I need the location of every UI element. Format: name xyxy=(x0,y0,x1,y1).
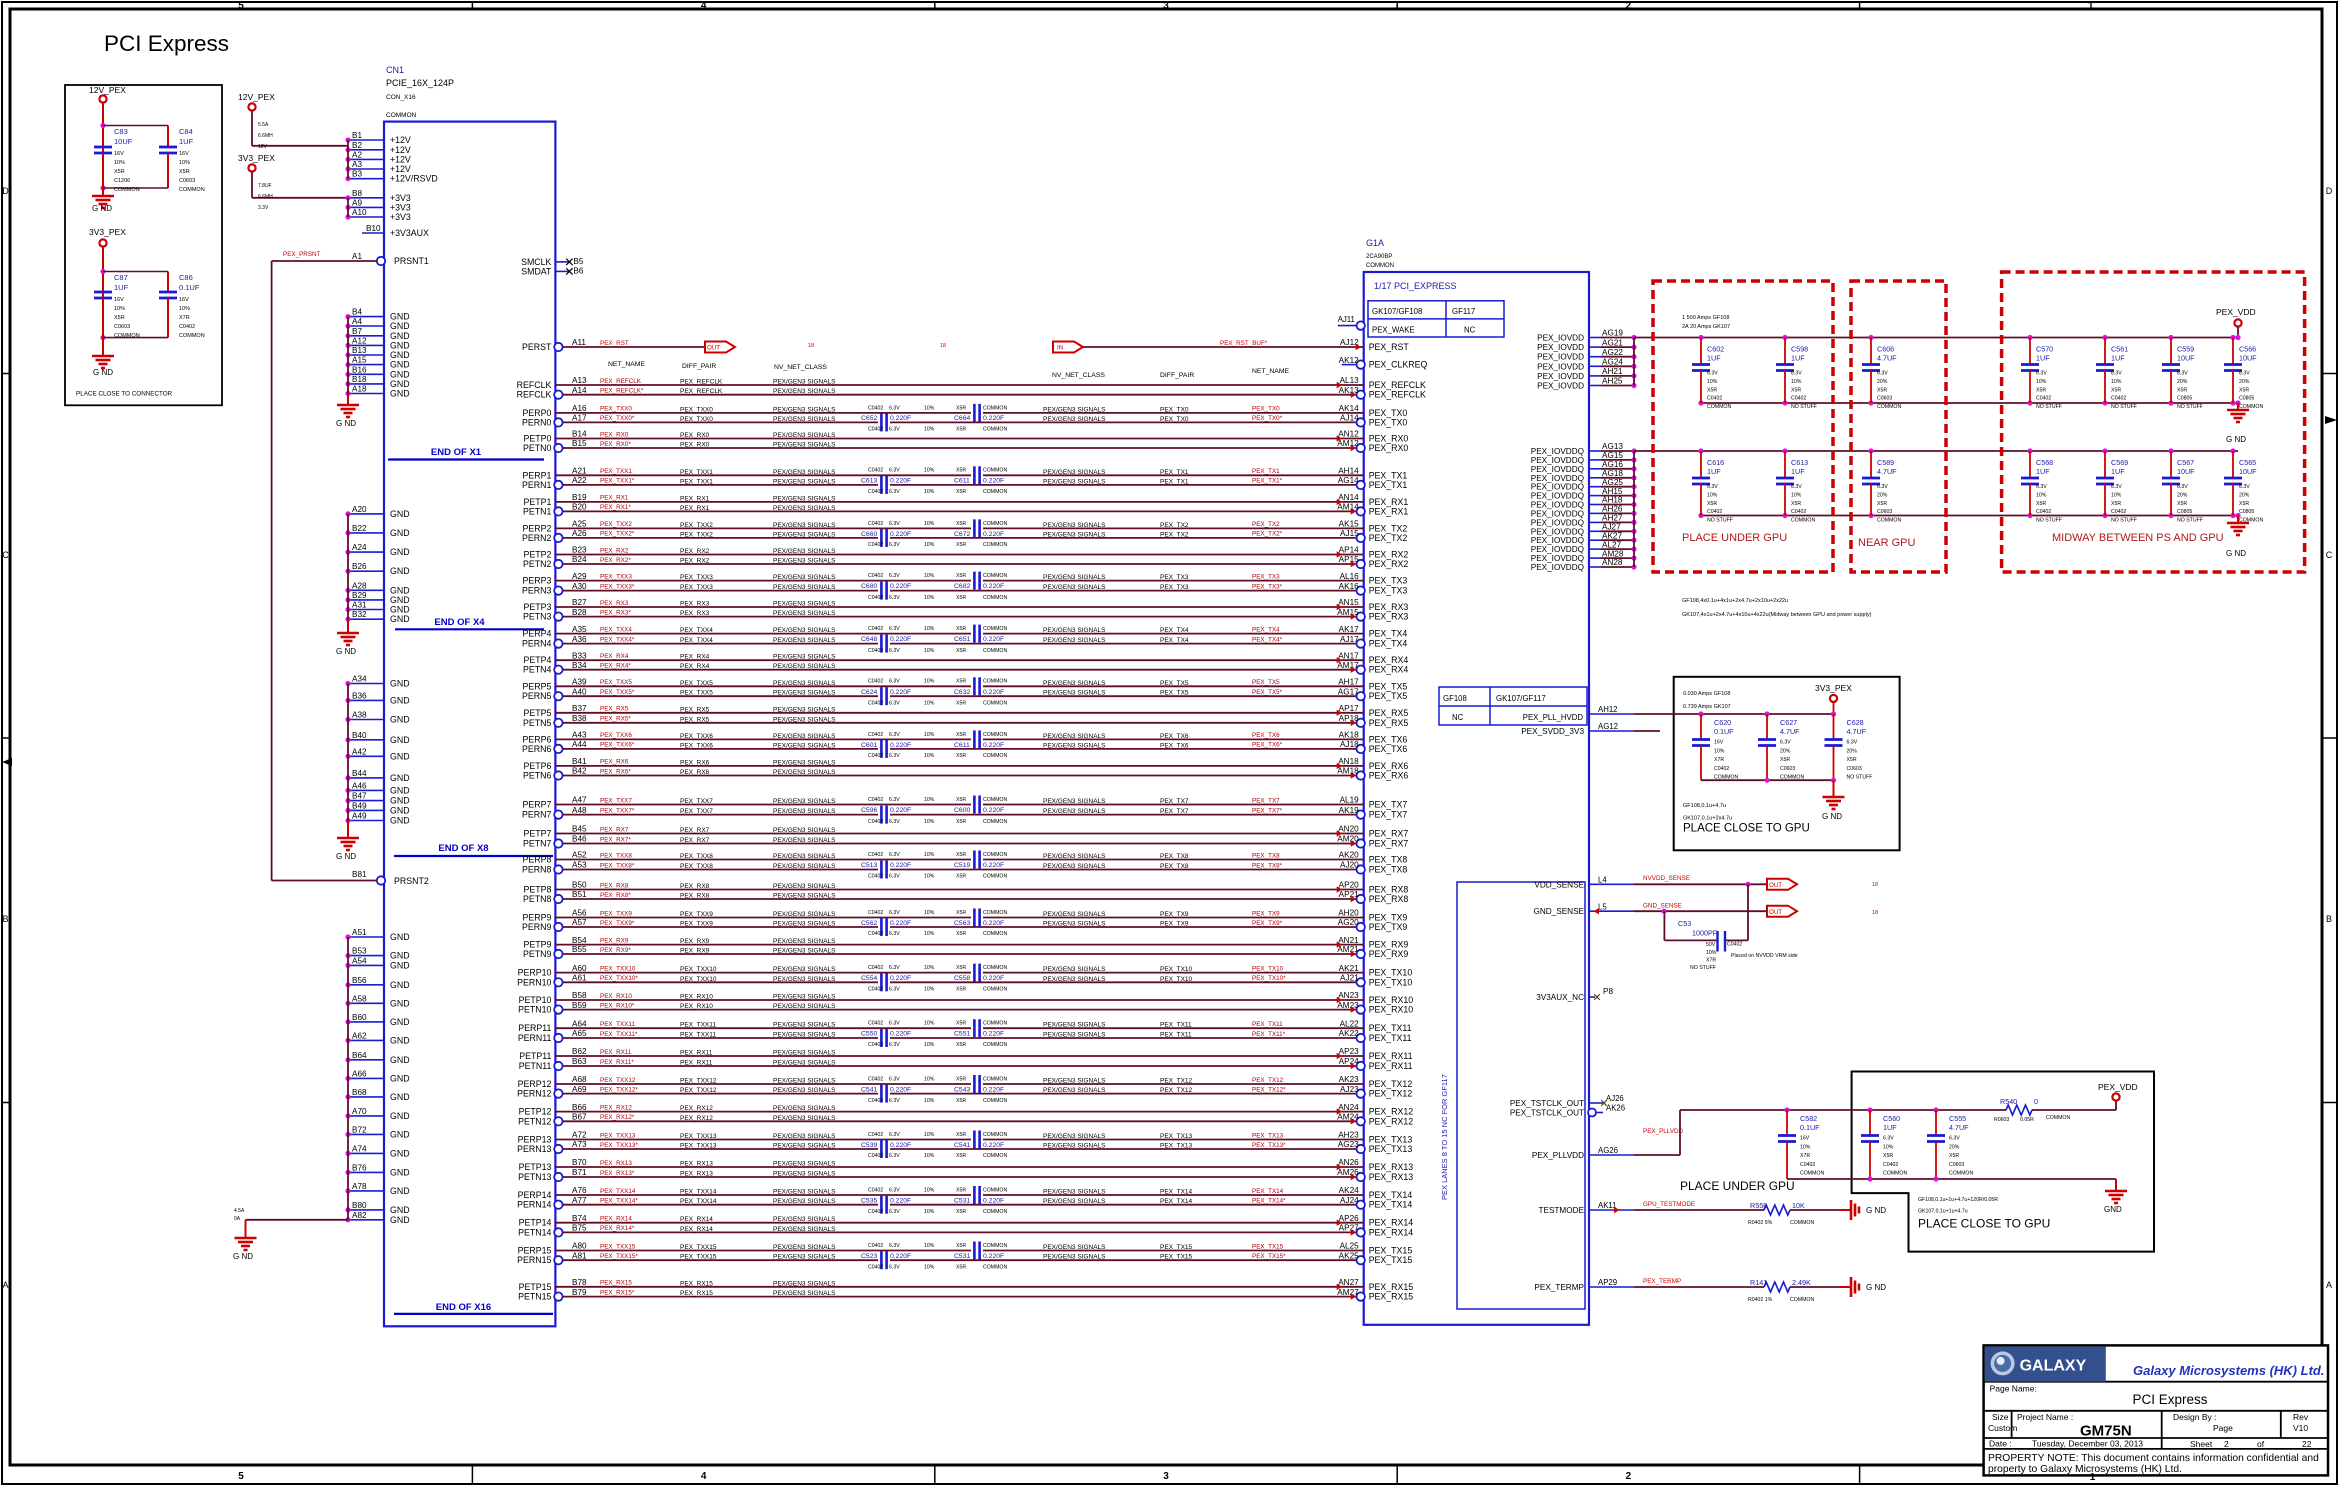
svg-text:R0402 1%: R0402 1% xyxy=(1748,1297,1773,1303)
svg-text:GND: GND xyxy=(390,1035,410,1045)
svg-text:PEX/GEN3 SIGNALS: PEX/GEN3 SIGNALS xyxy=(1043,531,1106,538)
svg-text:PEX/GEN3 SIGNALS: PEX/GEN3 SIGNALS xyxy=(773,1143,836,1150)
svg-text:PETN11: PETN11 xyxy=(519,1061,552,1071)
svg-text:1UF: 1UF xyxy=(179,137,194,146)
svg-text:PEX_TX12*: PEX_TX12* xyxy=(1252,1086,1286,1093)
svg-text:PEX_TX1: PEX_TX1 xyxy=(1252,468,1280,475)
svg-text:X5R: X5R xyxy=(956,405,966,411)
svg-text:PEX_IOVDDQ: PEX_IOVDDQ xyxy=(1531,447,1584,456)
svg-text:A16: A16 xyxy=(572,404,587,413)
svg-text:A68: A68 xyxy=(572,1075,587,1084)
svg-text:PEX_TXX6: PEX_TXX6 xyxy=(680,733,713,740)
svg-text:END OF X8: END OF X8 xyxy=(438,843,488,854)
svg-text:+3V3AUX: +3V3AUX xyxy=(390,228,429,238)
svg-text:3: 3 xyxy=(1163,1471,1169,1482)
svg-text:C0402: C0402 xyxy=(868,542,883,548)
svg-text:C0402: C0402 xyxy=(1707,396,1722,402)
svg-text:PEX/GEN3 SIGNALS: PEX/GEN3 SIGNALS xyxy=(1043,690,1106,697)
svg-text:0.220F: 0.220F xyxy=(983,1031,1004,1038)
svg-text:PEX/GEN3 SIGNALS: PEX/GEN3 SIGNALS xyxy=(773,522,836,529)
svg-text:0.220F: 0.220F xyxy=(890,742,911,749)
svg-text:PERP7: PERP7 xyxy=(523,800,552,810)
svg-text:B54: B54 xyxy=(572,936,587,945)
svg-text:PEX_RX12: PEX_RX12 xyxy=(1369,1107,1414,1117)
svg-text:PEX_TXX2: PEX_TXX2 xyxy=(680,531,713,538)
svg-text:PEX_TXX0: PEX_TXX0 xyxy=(680,406,713,413)
svg-text:PEX_TX9: PEX_TX9 xyxy=(1369,922,1408,932)
svg-text:PEX_RX2*: PEX_RX2* xyxy=(600,557,631,564)
svg-text:A28: A28 xyxy=(352,581,367,590)
svg-text:C0402: C0402 xyxy=(868,521,883,527)
svg-text:C0402: C0402 xyxy=(2036,396,2051,402)
svg-text:PEX_TXX3: PEX_TXX3 xyxy=(680,574,713,581)
svg-text:A26: A26 xyxy=(572,529,587,538)
svg-text:PEX/GEN3 SIGNALS: PEX/GEN3 SIGNALS xyxy=(773,837,836,844)
svg-text:COMMON: COMMON xyxy=(386,112,417,119)
svg-text:COMMON: COMMON xyxy=(983,931,1007,937)
svg-text:PEX_TX0: PEX_TX0 xyxy=(1252,406,1280,413)
svg-text:PEX_RX9: PEX_RX9 xyxy=(680,948,710,955)
svg-text:10%: 10% xyxy=(924,468,935,474)
svg-text:COMMON: COMMON xyxy=(983,542,1007,548)
svg-text:PEX/GEN3 SIGNALS: PEX/GEN3 SIGNALS xyxy=(1043,1032,1106,1039)
svg-text:C0603: C0603 xyxy=(179,178,195,184)
svg-text:PEX_TXX7*: PEX_TXX7* xyxy=(600,807,635,814)
svg-text:DIFF_PAIR: DIFF_PAIR xyxy=(682,363,716,370)
svg-text:0.220F: 0.220F xyxy=(890,807,911,814)
svg-text:PEX_TX15*: PEX_TX15* xyxy=(1252,1253,1286,1260)
svg-text:20%: 20% xyxy=(1847,748,1858,754)
svg-text:C567: C567 xyxy=(2177,458,2194,467)
svg-text:GK107,0.1u+2x4.7u: GK107,0.1u+2x4.7u xyxy=(1683,816,1732,822)
svg-text:PEX_TX7: PEX_TX7 xyxy=(1252,797,1280,804)
svg-text:PEX_TX10: PEX_TX10 xyxy=(1252,965,1284,972)
svg-text:C0402: C0402 xyxy=(868,1098,883,1104)
svg-text:COMMON: COMMON xyxy=(983,819,1007,825)
svg-text:PEX_RX3: PEX_RX3 xyxy=(600,600,629,607)
svg-text:B71: B71 xyxy=(572,1168,587,1177)
svg-text:PEX_TX15: PEX_TX15 xyxy=(1160,1244,1193,1251)
svg-text:C0402: C0402 xyxy=(868,427,883,433)
svg-text:PEX_IOVDD: PEX_IOVDD xyxy=(1537,334,1584,343)
svg-text:AN17: AN17 xyxy=(1338,651,1359,660)
svg-text:PEX/GEN3 SIGNALS: PEX/GEN3 SIGNALS xyxy=(1043,469,1106,476)
svg-text:0.220F: 0.220F xyxy=(983,478,1004,485)
svg-text:PEX_RX0*: PEX_RX0* xyxy=(600,441,631,448)
svg-text:10%: 10% xyxy=(924,965,935,971)
svg-text:PEX/GEN3 SIGNALS: PEX/GEN3 SIGNALS xyxy=(773,574,836,581)
svg-text:PEX_IOVDDQ: PEX_IOVDDQ xyxy=(1531,563,1584,572)
svg-text:0.220F: 0.220F xyxy=(983,1086,1004,1093)
svg-text:AM18: AM18 xyxy=(1337,767,1359,776)
svg-text:1UF: 1UF xyxy=(1707,467,1721,476)
svg-text:PEX/GEN3 SIGNALS: PEX/GEN3 SIGNALS xyxy=(773,883,836,890)
svg-text:PEX_TX4: PEX_TX4 xyxy=(1160,627,1189,634)
svg-text:PEX_IOVDDQ: PEX_IOVDDQ xyxy=(1531,536,1584,545)
svg-text:X5R: X5R xyxy=(1791,387,1801,393)
svg-text:B37: B37 xyxy=(572,704,587,713)
svg-text:C0402: C0402 xyxy=(2036,509,2051,515)
svg-text:16V: 16V xyxy=(179,151,189,157)
svg-text:GM75N: GM75N xyxy=(2080,1423,2132,1440)
svg-text:B51: B51 xyxy=(572,890,587,899)
svg-text:4.5A: 4.5A xyxy=(234,1208,245,1214)
svg-text:PEX_RX8: PEX_RX8 xyxy=(680,883,710,890)
svg-text:A35: A35 xyxy=(572,625,587,634)
svg-text:PEX_RX6: PEX_RX6 xyxy=(1369,771,1409,781)
svg-text:PEX_RX12: PEX_RX12 xyxy=(680,1115,713,1122)
svg-text:PEX_TX13: PEX_TX13 xyxy=(1369,1135,1413,1145)
svg-text:6.3V: 6.3V xyxy=(889,489,900,495)
svg-text:10%: 10% xyxy=(114,160,125,166)
svg-text:PETN13: PETN13 xyxy=(518,1172,551,1182)
svg-text:C648: C648 xyxy=(861,636,877,643)
svg-text:C0805: C0805 xyxy=(2177,509,2192,515)
svg-text:PEX_RX12: PEX_RX12 xyxy=(680,1105,713,1112)
svg-text:PEX/GEN3 SIGNALS: PEX/GEN3 SIGNALS xyxy=(1043,627,1106,634)
svg-text:C558: C558 xyxy=(954,975,970,982)
svg-text:C680: C680 xyxy=(861,583,877,590)
svg-text:PEX_RX1: PEX_RX1 xyxy=(1369,506,1409,516)
svg-text:AP23: AP23 xyxy=(1339,1047,1359,1056)
svg-text:PEX_RX10: PEX_RX10 xyxy=(1369,1005,1414,1015)
svg-text:PERN1: PERN1 xyxy=(522,480,551,490)
svg-text:PEX/GEN3 SIGNALS: PEX/GEN3 SIGNALS xyxy=(773,1226,836,1233)
svg-text:GND: GND xyxy=(390,369,410,379)
svg-text:COMMON: COMMON xyxy=(1877,404,1901,410)
svg-text:B4: B4 xyxy=(352,308,362,317)
svg-text:PEX/GEN3 SIGNALS: PEX/GEN3 SIGNALS xyxy=(773,1244,836,1251)
svg-text:COMMON: COMMON xyxy=(983,468,1007,474)
svg-text:PETP15: PETP15 xyxy=(519,1282,552,1292)
svg-text:C0402: C0402 xyxy=(868,648,883,654)
svg-text:C0402: C0402 xyxy=(868,874,883,880)
svg-text:C539: C539 xyxy=(861,1142,877,1149)
svg-text:G ND: G ND xyxy=(2226,435,2246,444)
svg-text:PETP5: PETP5 xyxy=(524,708,552,718)
svg-text:PEX_RX11*: PEX_RX11* xyxy=(600,1059,634,1066)
svg-text:B16: B16 xyxy=(352,365,367,374)
svg-text:X5R: X5R xyxy=(956,1042,966,1048)
svg-text:PEX/GEN3 SIGNALS: PEX/GEN3 SIGNALS xyxy=(1043,522,1106,529)
svg-text:1UF: 1UF xyxy=(114,283,129,292)
svg-text:20%: 20% xyxy=(1780,748,1791,754)
svg-text:PEX_TX2: PEX_TX2 xyxy=(1369,523,1408,533)
svg-text:10%: 10% xyxy=(924,679,935,685)
svg-text:C0402: C0402 xyxy=(179,324,195,330)
svg-text:PEX_TX13: PEX_TX13 xyxy=(1252,1132,1284,1139)
svg-text:PEX/GEN3 SIGNALS: PEX/GEN3 SIGNALS xyxy=(773,1198,836,1205)
svg-text:AG21: AG21 xyxy=(1602,338,1623,347)
svg-text:PETP3: PETP3 xyxy=(524,602,552,612)
svg-text:AM24: AM24 xyxy=(1337,1113,1359,1122)
svg-text:B41: B41 xyxy=(572,757,587,766)
svg-text:GALAXY: GALAXY xyxy=(2020,1357,2087,1374)
svg-text:C682: C682 xyxy=(954,583,970,590)
svg-text:AN18: AN18 xyxy=(1338,757,1359,766)
svg-text:GND: GND xyxy=(390,1092,410,1102)
svg-text:B26: B26 xyxy=(352,562,367,571)
svg-text:PEX_RX15: PEX_RX15 xyxy=(1369,1292,1414,1302)
svg-text:PEX/GEN3 SIGNALS: PEX/GEN3 SIGNALS xyxy=(773,654,836,661)
svg-text:Galaxy Microsystems (HK) Ltd.: Galaxy Microsystems (HK) Ltd. xyxy=(2133,1363,2324,1378)
svg-text:C559: C559 xyxy=(2177,345,2194,354)
svg-text:PEX_TXX7: PEX_TXX7 xyxy=(680,798,713,805)
svg-text:1UF: 1UF xyxy=(2111,467,2125,476)
svg-text:6.3V: 6.3V xyxy=(2177,371,2188,377)
svg-text:PEX_RX0: PEX_RX0 xyxy=(680,442,710,449)
svg-text:B2: B2 xyxy=(352,141,362,150)
svg-text:PEX_TX14*: PEX_TX14* xyxy=(1252,1198,1286,1205)
svg-text:PERP5: PERP5 xyxy=(523,681,552,691)
svg-text:X5R: X5R xyxy=(2036,387,2046,393)
svg-text:PERP10: PERP10 xyxy=(518,968,552,978)
svg-text:PEX/GEN3 SIGNALS: PEX/GEN3 SIGNALS xyxy=(773,558,836,565)
svg-text:GND: GND xyxy=(390,1167,410,1177)
svg-text:16V: 16V xyxy=(1800,1136,1810,1142)
svg-text:PEX/GEN3 SIGNALS: PEX/GEN3 SIGNALS xyxy=(1043,863,1106,870)
svg-text:AK20: AK20 xyxy=(1339,851,1359,860)
svg-text:PEX_IOVDDQ: PEX_IOVDDQ xyxy=(1531,474,1584,483)
svg-text:PEX_TXX11*: PEX_TXX11* xyxy=(600,1031,638,1038)
svg-text:GND: GND xyxy=(390,331,410,341)
svg-text:PEX/GEN3 SIGNALS: PEX/GEN3 SIGNALS xyxy=(773,1003,836,1010)
svg-text:C0402: C0402 xyxy=(868,405,883,411)
svg-text:NV_NET_CLASS: NV_NET_CLASS xyxy=(774,364,827,371)
svg-text:A73: A73 xyxy=(572,1140,587,1149)
svg-text:PEX_IOVDD: PEX_IOVDD xyxy=(1537,362,1584,371)
svg-text:PEX_TXX14: PEX_TXX14 xyxy=(680,1198,717,1205)
svg-text:PERN2: PERN2 xyxy=(522,533,551,543)
svg-text:of: of xyxy=(2257,1439,2265,1449)
svg-text:AN23: AN23 xyxy=(1338,991,1359,1000)
svg-text:COMMON: COMMON xyxy=(983,1264,1007,1270)
svg-text:PEX_TSTCLK_OUT: PEX_TSTCLK_OUT xyxy=(1510,1109,1584,1118)
svg-text:A54: A54 xyxy=(352,956,367,965)
svg-text:COMMON: COMMON xyxy=(1707,404,1731,410)
svg-text:PEX_TXX3: PEX_TXX3 xyxy=(680,584,713,591)
svg-text:PEX_RX0: PEX_RX0 xyxy=(1369,443,1409,453)
svg-text:Size: Size xyxy=(1992,1412,2009,1422)
svg-text:GND: GND xyxy=(390,735,410,745)
svg-text:G ND: G ND xyxy=(336,647,356,656)
svg-text:PEX_REFCLK: PEX_REFCLK xyxy=(600,378,642,385)
svg-text:PEX/GEN3 SIGNALS: PEX/GEN3 SIGNALS xyxy=(773,827,836,834)
svg-text:L4: L4 xyxy=(1598,876,1607,885)
svg-text:C0402: C0402 xyxy=(868,1042,883,1048)
svg-text:C664: C664 xyxy=(954,415,970,422)
svg-text:A29: A29 xyxy=(572,572,587,581)
svg-text:B44: B44 xyxy=(352,769,367,778)
svg-text:R0402 5%: R0402 5% xyxy=(1748,1220,1773,1226)
svg-text:0.220F: 0.220F xyxy=(983,862,1004,869)
svg-text:PEX_RX10: PEX_RX10 xyxy=(680,994,713,1001)
svg-text:C531: C531 xyxy=(954,1253,970,1260)
svg-text:GND: GND xyxy=(390,566,410,576)
svg-text:PCIE_16X_124P: PCIE_16X_124P xyxy=(386,78,454,88)
svg-text:4.7UF: 4.7UF xyxy=(1949,1123,1969,1132)
svg-text:PEX_TXX7: PEX_TXX7 xyxy=(600,797,632,804)
svg-text:PERN4: PERN4 xyxy=(522,639,551,649)
svg-text:PEX/GEN3 SIGNALS: PEX/GEN3 SIGNALS xyxy=(1043,478,1106,485)
svg-text:AM12: AM12 xyxy=(1337,439,1359,448)
svg-text:PEX/GEN3 SIGNALS: PEX/GEN3 SIGNALS xyxy=(773,1280,836,1287)
svg-text:3V3AUX_NC: 3V3AUX_NC xyxy=(1536,993,1584,1002)
svg-text:5: 5 xyxy=(238,1,244,12)
svg-text:AP17: AP17 xyxy=(1339,704,1359,713)
svg-text:PEX/GEN3 SIGNALS: PEX/GEN3 SIGNALS xyxy=(1043,1189,1106,1196)
svg-text:A38: A38 xyxy=(352,711,367,720)
svg-text:GND: GND xyxy=(390,585,410,595)
svg-text:PETP2: PETP2 xyxy=(524,550,552,560)
svg-text:B75: B75 xyxy=(572,1224,587,1233)
svg-text:PEX_RX8*: PEX_RX8* xyxy=(600,892,631,899)
svg-text:PEX/GEN3 SIGNALS: PEX/GEN3 SIGNALS xyxy=(1043,911,1106,918)
svg-text:6.3V: 6.3V xyxy=(2177,484,2188,490)
svg-text:C0402: C0402 xyxy=(868,595,883,601)
svg-text:PEX_VDD: PEX_VDD xyxy=(2216,307,2256,317)
svg-text:AN12: AN12 xyxy=(1338,430,1359,439)
svg-text:PEX_TXX10*: PEX_TXX10* xyxy=(600,975,638,982)
svg-text:GND: GND xyxy=(390,773,410,783)
svg-text:PEX/GEN3 SIGNALS: PEX/GEN3 SIGNALS xyxy=(773,1133,836,1140)
svg-text:PEX_RX14: PEX_RX14 xyxy=(1369,1227,1414,1237)
svg-text:PEX/GEN3 SIGNALS: PEX/GEN3 SIGNALS xyxy=(773,416,836,423)
svg-text:6.3V: 6.3V xyxy=(1877,371,1888,377)
svg-text:C613: C613 xyxy=(861,478,877,485)
svg-text:PEX_PLL_HVDD: PEX_PLL_HVDD xyxy=(1523,713,1584,722)
svg-text:C562: C562 xyxy=(861,920,877,927)
svg-text:PEX_TXX8*: PEX_TXX8* xyxy=(600,862,635,869)
svg-text:PEX_TX1*: PEX_TX1* xyxy=(1252,478,1283,485)
svg-text:X5R: X5R xyxy=(1780,757,1790,763)
svg-text:COMMON: COMMON xyxy=(983,732,1007,738)
svg-text:PEX_RX5: PEX_RX5 xyxy=(680,706,710,713)
svg-text:PEX_RX5: PEX_RX5 xyxy=(1369,708,1409,718)
svg-text:C0402: C0402 xyxy=(868,679,883,685)
svg-text:B10: B10 xyxy=(366,224,381,233)
svg-text:PEX_RX8: PEX_RX8 xyxy=(1369,894,1409,904)
svg-text:PEX_IOVDDQ: PEX_IOVDDQ xyxy=(1531,465,1584,474)
svg-text:18: 18 xyxy=(808,343,814,349)
svg-text:X5R: X5R xyxy=(956,679,966,685)
svg-text:PLACE CLOSE TO GPU: PLACE CLOSE TO GPU xyxy=(1683,823,1810,835)
svg-text:10%: 10% xyxy=(924,521,935,527)
svg-text:PEX_TXX10: PEX_TXX10 xyxy=(680,966,717,973)
svg-text:PEX_RX8: PEX_RX8 xyxy=(1369,885,1409,895)
svg-text:C620: C620 xyxy=(1714,718,1731,727)
svg-text:6.3V: 6.3V xyxy=(1780,740,1791,746)
svg-text:PCI Express: PCI Express xyxy=(2132,1392,2207,1407)
svg-text:PEX_CLKREQ: PEX_CLKREQ xyxy=(1369,360,1428,370)
svg-text:AJ17: AJ17 xyxy=(1340,635,1359,644)
svg-text:GND: GND xyxy=(390,528,410,538)
svg-text:PEX_RX2: PEX_RX2 xyxy=(680,558,710,565)
svg-text:GND: GND xyxy=(390,1215,410,1225)
svg-text:PEX/GEN3 SIGNALS: PEX/GEN3 SIGNALS xyxy=(1043,921,1106,928)
svg-text:6.3V: 6.3V xyxy=(889,521,900,527)
svg-text:PEX_RX14: PEX_RX14 xyxy=(680,1226,713,1233)
svg-text:COMMON: COMMON xyxy=(983,987,1007,993)
svg-text:OUT: OUT xyxy=(707,345,720,352)
svg-text:C84: C84 xyxy=(179,127,193,136)
svg-text:PEX_REFCLK*: PEX_REFCLK* xyxy=(600,388,644,395)
svg-text:GK107,4x1u+2x4.7u+4x10u+4x22u(: GK107,4x1u+2x4.7u+4x10u+4x22u(Midway bet… xyxy=(1682,612,1872,618)
svg-text:0.220F: 0.220F xyxy=(890,478,911,485)
svg-text:PEX_TXX9: PEX_TXX9 xyxy=(600,910,632,917)
svg-text:C563: C563 xyxy=(954,920,970,927)
svg-text:PEX/GEN3 SIGNALS: PEX/GEN3 SIGNALS xyxy=(773,994,836,1001)
svg-text:GND: GND xyxy=(390,785,410,795)
svg-text:18: 18 xyxy=(1872,910,1878,916)
svg-text:22: 22 xyxy=(2302,1439,2312,1449)
svg-text:PEX_RX10*: PEX_RX10* xyxy=(600,1002,635,1009)
svg-text:0.1UF: 0.1UF xyxy=(1800,1123,1820,1132)
svg-text:A78: A78 xyxy=(352,1182,367,1191)
svg-text:PEX_RX4: PEX_RX4 xyxy=(1369,665,1409,675)
svg-text:+12V: +12V xyxy=(390,164,411,174)
svg-text:PEX/GEN3 SIGNALS: PEX/GEN3 SIGNALS xyxy=(1043,1254,1106,1261)
svg-text:PEX_TXX5: PEX_TXX5 xyxy=(680,690,713,697)
svg-text:10UF: 10UF xyxy=(2177,354,2195,363)
svg-text:PEX_RX15: PEX_RX15 xyxy=(1369,1282,1414,1292)
svg-text:C531: C531 xyxy=(954,1197,970,1204)
svg-text:6.3V: 6.3V xyxy=(889,626,900,632)
svg-text:10%: 10% xyxy=(1707,379,1718,385)
svg-text:A82: A82 xyxy=(352,1211,367,1220)
svg-text:X5R: X5R xyxy=(956,542,966,548)
svg-text:PEX_TX8: PEX_TX8 xyxy=(1160,863,1189,870)
svg-text:AN14: AN14 xyxy=(1338,493,1359,502)
svg-text:PEX_TXX11: PEX_TXX11 xyxy=(680,1022,716,1029)
svg-text:PEX/GEN3 SIGNALS: PEX/GEN3 SIGNALS xyxy=(773,1254,836,1261)
svg-text:GND: GND xyxy=(390,1186,410,1196)
svg-text:20%: 20% xyxy=(1877,492,1888,498)
svg-text:AP21: AP21 xyxy=(1339,890,1359,899)
svg-text:10%: 10% xyxy=(924,427,935,433)
svg-text:COMMON: COMMON xyxy=(1791,518,1815,524)
svg-text:PEX_RX3: PEX_RX3 xyxy=(1369,612,1409,622)
svg-text:REFCLK: REFCLK xyxy=(517,390,552,400)
svg-text:PEX/GEN3 SIGNALS: PEX/GEN3 SIGNALS xyxy=(1043,798,1106,805)
svg-text:C555: C555 xyxy=(1949,1114,1966,1123)
svg-text:10%: 10% xyxy=(924,819,935,825)
svg-text:B3: B3 xyxy=(352,170,362,179)
svg-text:PEX_TXX0: PEX_TXX0 xyxy=(680,416,713,423)
svg-text:PEX_RX14: PEX_RX14 xyxy=(680,1216,713,1223)
svg-text:A81: A81 xyxy=(572,1251,587,1260)
svg-text:COMMON: COMMON xyxy=(983,753,1007,759)
svg-text:AJ21: AJ21 xyxy=(1340,974,1359,983)
svg-text:AJ11: AJ11 xyxy=(1338,315,1355,324)
svg-text:B78: B78 xyxy=(572,1278,587,1287)
svg-text:PEX_IOVDDQ: PEX_IOVDDQ xyxy=(1531,554,1584,563)
svg-text:C550: C550 xyxy=(861,1031,877,1038)
svg-text:NVVDD_SENSE: NVVDD_SENSE xyxy=(1643,875,1690,882)
svg-text:GND: GND xyxy=(2104,1205,2122,1214)
svg-text:AH27: AH27 xyxy=(1602,514,1623,523)
svg-text:PERN5: PERN5 xyxy=(522,691,551,701)
svg-text:X5R: X5R xyxy=(956,1187,966,1193)
svg-text:PEX_TX5: PEX_TX5 xyxy=(1160,680,1189,687)
svg-text:C1206: C1206 xyxy=(114,178,130,184)
svg-text:10%: 10% xyxy=(1800,1144,1811,1150)
svg-text:PEX_REFCLK: PEX_REFCLK xyxy=(680,388,723,395)
svg-text:A70: A70 xyxy=(352,1107,367,1116)
svg-text:10%: 10% xyxy=(924,931,935,937)
svg-text:PEX/GEN3 SIGNALS: PEX/GEN3 SIGNALS xyxy=(1043,680,1106,687)
svg-text:A15: A15 xyxy=(352,356,367,365)
